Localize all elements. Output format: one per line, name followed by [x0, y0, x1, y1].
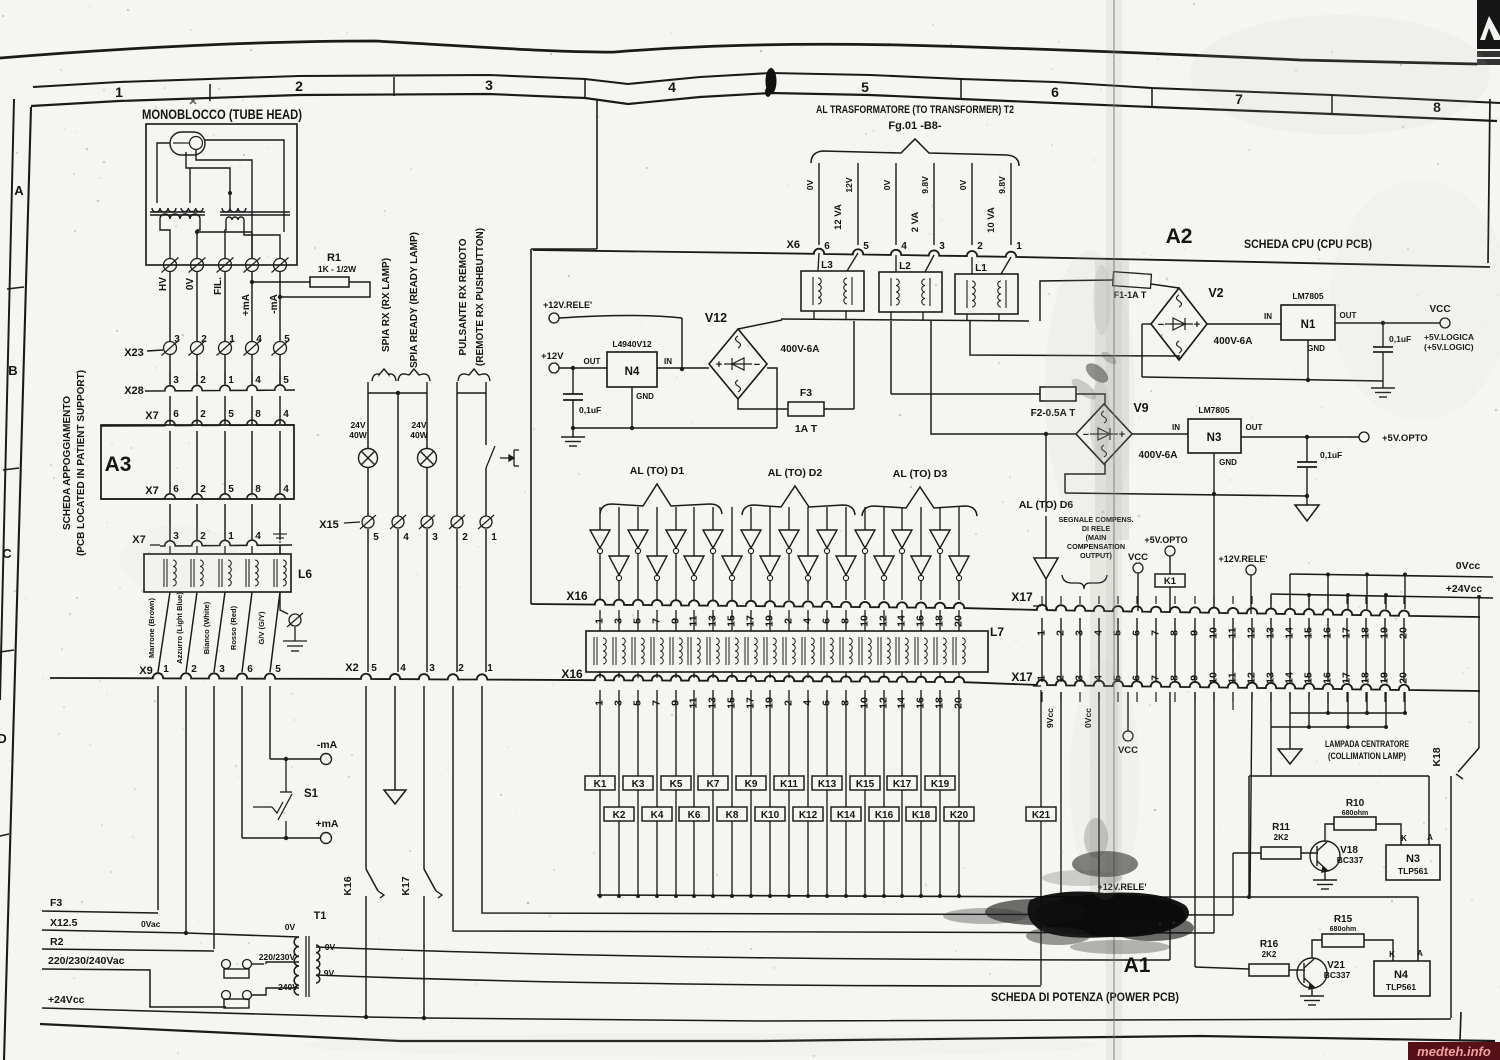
L7 winding [651, 637, 663, 665]
relay box K18 [906, 807, 936, 821]
wire driver to X16 lower [693, 581, 695, 600]
wire R15 to N4 K [1364, 940, 1393, 961]
wire X16 to L7 [845, 610, 847, 631]
relay box K15 [850, 776, 880, 790]
svg-text:3: 3 [173, 375, 179, 386]
svg-text:X16: X16 [561, 667, 583, 681]
inductor block L7 outline [586, 631, 988, 672]
svg-text:N4: N4 [625, 366, 640, 378]
svg-text:Marrone (Brown): Marrone (Brown) [147, 597, 156, 658]
wire relay to bus [637, 790, 639, 895]
driver circle upper [899, 548, 904, 553]
svg-text:1: 1 [491, 532, 497, 543]
transformer T-HV primary winding 1 [152, 208, 176, 212]
wire to R11 [1233, 852, 1261, 854]
svg-text:A3: A3 [105, 453, 132, 476]
L6 winding [219, 559, 231, 587]
junction N3 gnd rail [1212, 492, 1216, 496]
wire X17 pin 12 pass-through [1251, 618, 1253, 682]
regulator N1 LM7805 box [1281, 305, 1335, 340]
wire X23 to X28 [279, 355, 281, 384]
svg-text:K3: K3 [632, 779, 645, 790]
wire lamp1 top [367, 382, 369, 393]
svg-text:K: K [1401, 834, 1407, 843]
svg-text:4: 4 [255, 531, 261, 542]
wire relay to bus [618, 821, 620, 895]
svg-text:L4940V12: L4940V12 [612, 339, 651, 349]
wire relay to bus [675, 790, 677, 895]
junction collector [1403, 711, 1407, 715]
X17 upper stub [1136, 596, 1138, 604]
wire box edge vertical to frame [596, 99, 598, 249]
svg-text:9.8V: 9.8V [920, 176, 930, 194]
wire X17 pin 9 pass-through [1194, 618, 1196, 682]
svg-text:K16: K16 [875, 810, 894, 821]
svg-text:8: 8 [255, 409, 261, 420]
wire box top edge [531, 248, 597, 250]
wire X12.5 line [42, 930, 299, 937]
svg-text:X6: X6 [787, 239, 800, 251]
svg-text:4: 4 [400, 663, 406, 674]
svg-text:X17: X17 [1011, 670, 1033, 684]
wire L7 to X16 lower [920, 672, 922, 678]
wire 0Vcc to pin14 [1289, 574, 1291, 608]
driver triangle upper 11 [779, 530, 799, 548]
svg-text:+mA: +mA [241, 294, 252, 316]
cap plate [1297, 466, 1317, 468]
wire X17 pin 15 pass-through [1308, 618, 1310, 682]
tube head box A-outline [146, 124, 297, 265]
svg-text:3: 3 [939, 241, 945, 252]
wire pin to collector [1327, 692, 1329, 713]
wire X16 to L7 [618, 610, 620, 631]
wire tube to fil winding [205, 140, 284, 208]
resistor R1 body [310, 277, 349, 287]
junction +24Vcc K18 [1477, 595, 1481, 599]
wire R2 line [42, 949, 214, 951]
svg-text:FIL.: FIL. [213, 277, 224, 295]
driver circle upper [862, 548, 867, 553]
svg-text:R15: R15 [1334, 914, 1353, 925]
driver triangle lower 2 [609, 556, 629, 575]
wire transformer bottom [966, 314, 968, 320]
wire driver to X16 [675, 554, 677, 600]
optocoupler N3 box [1386, 845, 1440, 880]
wire to driver lower [845, 507, 847, 556]
L6 top stub [196, 546, 198, 554]
svg-text:X28: X28 [124, 385, 144, 397]
svg-text:2: 2 [200, 375, 206, 386]
svg-text:K18: K18 [1431, 747, 1443, 766]
wire driver to X16 lower [807, 581, 809, 600]
junction 0Vcc [1365, 573, 1369, 577]
svg-text:+5V.OPTO: +5V.OPTO [1382, 433, 1428, 444]
transistor V18 BC337 [1310, 841, 1340, 872]
L7 winding [594, 637, 606, 665]
svg-text:3: 3 [429, 663, 435, 674]
L6 top stub [279, 546, 281, 554]
driver triangle lower 16 [874, 556, 894, 575]
selector contact 2a [222, 991, 231, 1000]
wire L7 to X16 lower [939, 672, 941, 678]
wire F3 up to trafo line [853, 321, 855, 409]
wire L7 to X16 lower [656, 672, 658, 678]
svg-text:A: A [14, 183, 24, 198]
selector contact 2b [243, 991, 252, 1000]
wire X17 pin 6 pass-through [1136, 618, 1138, 682]
junction collector [1365, 711, 1369, 715]
relay box K17 [887, 776, 917, 790]
svg-text:2K2: 2K2 [1262, 950, 1277, 959]
wire pin to collector [1404, 692, 1406, 713]
svg-text:Fg.01 -B8-: Fg.01 -B8- [888, 120, 942, 132]
wire X16 to relay row2 [958, 690, 960, 807]
svg-text:0Vcc: 0Vcc [1456, 560, 1481, 572]
wire inside A3 [251, 431, 253, 493]
wire X9-5 down [269, 686, 271, 759]
wire X6-4 into L2 [895, 255, 897, 272]
wire to driver upper [901, 507, 903, 530]
driver triangle lower 18 [911, 556, 931, 575]
svg-text:K18: K18 [912, 810, 931, 821]
X17-11 stub [1232, 692, 1234, 710]
X17 upper stub [1060, 596, 1062, 604]
bus junction [863, 894, 867, 898]
wire X15 to X2 [456, 529, 458, 672]
svg-text:9.8V: 9.8V [997, 176, 1007, 194]
svg-text:K10: K10 [761, 810, 780, 821]
X28 pin stub [196, 371, 198, 385]
wire driver to X16 [826, 554, 828, 600]
wire L7 to X16 lower [807, 672, 809, 678]
X17 lower stub [1365, 692, 1367, 702]
wire driver to X16 lower [618, 581, 620, 600]
wire X16 to relay row1 [788, 690, 790, 776]
wire driver to X16 lower [845, 581, 847, 600]
wire VCC to X17-6 [1137, 573, 1139, 611]
svg-text:8: 8 [255, 484, 261, 495]
wire bus to N4 A [1417, 897, 1419, 961]
svg-text:0V: 0V [882, 179, 892, 190]
wire to driver lower [656, 507, 658, 556]
junction tube head [228, 191, 232, 195]
svg-text:K5: K5 [670, 779, 683, 790]
left frame line [4, 107, 31, 1060]
ruler tick [393, 77, 395, 96]
T-HV secondary winding [160, 214, 200, 219]
svg-text:MONOBLOCCO (TUBE HEAD): MONOBLOCCO (TUBE HEAD) [142, 107, 302, 122]
relay box K13 [812, 776, 842, 790]
L7 winding [953, 637, 965, 665]
wire X17-1 to K21 [1040, 690, 1042, 807]
driver circle lower [729, 575, 734, 580]
wire X16 to relay row2 [920, 690, 922, 807]
relay box K7 [698, 776, 728, 790]
wire X16 to relay row1 [637, 690, 639, 776]
svg-text:X15: X15 [319, 519, 339, 531]
wire X16 to relay row1 [750, 690, 752, 776]
down arrow (lamp common) [1278, 749, 1302, 764]
X17 lower stub [1174, 692, 1176, 702]
down arrow gnd opto [1295, 505, 1319, 521]
ruler tick [584, 80, 586, 99]
junction S1 bottom [284, 836, 288, 840]
wire X16 to L7 [864, 610, 866, 631]
junction cap 5V.OPTO [1305, 435, 1309, 439]
connector X28 row [145, 385, 295, 391]
wire to driver upper [864, 507, 866, 530]
svg-text:0Vac: 0Vac [141, 919, 161, 929]
svg-text:G/V (G/Y): G/V (G/Y) [257, 611, 266, 644]
svg-text:AL TRASFORMATORE (TO TRANSFORM: AL TRASFORMATORE (TO TRANSFORMER) T2 [816, 104, 1014, 116]
wire pin to collector [1289, 692, 1291, 713]
wire N1 out to VCC [1335, 322, 1440, 324]
svg-text:LM7805: LM7805 [1292, 291, 1323, 301]
svg-text:4: 4 [668, 79, 676, 95]
svg-text:R16: R16 [1260, 939, 1279, 950]
wire X17 pin 20 pass-through [1403, 618, 1405, 682]
svg-text:K9: K9 [745, 779, 758, 790]
wire driver to X16 [637, 554, 639, 600]
svg-text:K6: K6 [688, 810, 701, 821]
wire to driver lower [920, 507, 922, 556]
X17 upper stub [1384, 596, 1386, 604]
svg-text:SCHEDA DI POTENZA (POWER PCB): SCHEDA DI POTENZA (POWER PCB) [991, 992, 1179, 1004]
wire driver to X16 lower [656, 581, 658, 600]
wire L7 to X16 lower [599, 672, 601, 678]
wire to F1 [1040, 280, 1113, 321]
driver triangle upper 13 [817, 530, 837, 548]
wire X6-1 into L1 [1001, 257, 1011, 274]
svg-text:K4: K4 [651, 810, 664, 821]
wire X6-5 into L3 [847, 253, 858, 271]
wire to driver lower [769, 507, 771, 556]
selector link bar 1 [224, 969, 249, 978]
X15 terminal 5 [360, 515, 376, 529]
X23 terminal pin 5 [272, 341, 289, 356]
wire N3 gnd to X17-10 [1213, 494, 1215, 608]
wire to lamp2 [426, 393, 428, 448]
svg-text:K: K [1389, 950, 1395, 959]
svg-text:A: A [1417, 949, 1423, 958]
tube head terminal 3 [217, 258, 234, 273]
X17 upper stub [1174, 596, 1176, 604]
bus junction [749, 894, 753, 898]
wire K18 to +24 bottom line [1450, 776, 1452, 1018]
wire X2-4 down [394, 686, 396, 790]
svg-text:BC337: BC337 [1337, 855, 1364, 865]
X17 upper stub [1365, 596, 1367, 604]
transformer L3 [801, 271, 864, 311]
wire X17-12 to bus [1250, 692, 1252, 896]
driver triangle lower 6 [684, 556, 704, 575]
resistor R16 body [1249, 964, 1289, 976]
L7 winding [915, 637, 927, 665]
svg-text:V9: V9 [1133, 401, 1148, 415]
wire pin to collector 2 [1385, 692, 1387, 727]
wire X28 to X7 [169, 396, 171, 424]
bus junction [938, 894, 942, 898]
svg-text:D: D [0, 731, 7, 746]
wire R10 to collector [1325, 824, 1334, 841]
wire X6-6 into L3 [818, 253, 819, 271]
switch K16 blade [366, 869, 378, 891]
wire box left edge [530, 249, 532, 604]
X28 pin stub [224, 371, 226, 385]
junction +24 K17 [422, 1016, 426, 1020]
driver circle lower [843, 575, 848, 580]
ground V18 [1313, 880, 1337, 889]
svg-text:Rosso (Red): Rosso (Red) [229, 605, 238, 650]
svg-text:4: 4 [283, 409, 289, 420]
T-FIL core line 1 [220, 211, 290, 213]
wire L7 to X16 lower [901, 672, 903, 678]
wire X17 pin 4 pass-through [1098, 618, 1100, 682]
svg-text:A2: A2 [1166, 225, 1193, 248]
wire relay to bus [939, 790, 941, 895]
svg-text:K12: K12 [799, 810, 818, 821]
fuse F1 body [1113, 272, 1152, 289]
wire 9Vcc [1060, 692, 1062, 895]
relay box K12 [793, 807, 823, 821]
wire X16 to L7 [920, 610, 922, 631]
X17 lower stub [1327, 692, 1329, 702]
switch S1 [253, 759, 292, 838]
X17 lower stub [1232, 692, 1234, 702]
wire L7 to X16 lower [618, 672, 620, 678]
wire N1 gnd down [1307, 340, 1309, 380]
driver circle upper [673, 548, 678, 553]
svg-text:4: 4 [256, 334, 262, 345]
wire to D6 [1045, 434, 1047, 512]
wire X28 to X7 [196, 396, 198, 424]
wire G/V branch [280, 592, 288, 614]
driver circle lower [918, 575, 923, 580]
terminal VCC top [1133, 563, 1143, 573]
driver circle upper [824, 548, 829, 553]
wire R16 to base [1289, 969, 1305, 971]
wire driver to X16 [712, 554, 714, 600]
wire to K18 [1478, 597, 1480, 748]
svg-text:5: 5 [228, 409, 234, 420]
wire X16 to relay row2 [845, 690, 847, 807]
X17 upper stub [1079, 596, 1081, 604]
wire F3 out [824, 408, 854, 410]
brace pushbutton [458, 369, 490, 381]
ruler ink blob [766, 68, 777, 94]
switch K17 blade [424, 869, 436, 891]
wire driver to X16 [939, 554, 941, 600]
wire tube to HV winding [157, 143, 170, 203]
bus +12V.RELE [597, 895, 1418, 897]
svg-text:2 VA: 2 VA [910, 212, 921, 233]
wire V12 gnd rail [573, 427, 777, 429]
svg-text:1: 1 [228, 375, 234, 386]
bridge rectifier V9 [1076, 404, 1132, 464]
svg-text:LM7805: LM7805 [1198, 405, 1229, 415]
svg-text:−: − [754, 359, 760, 371]
wire X2-5 down [365, 686, 367, 869]
junction D6 net [1044, 432, 1048, 436]
svg-text:K21: K21 [1032, 810, 1051, 821]
junction collector 2 [1307, 725, 1311, 729]
X17 lower stub [1079, 692, 1081, 702]
wire X17 pin 1 pass-through [1041, 618, 1043, 682]
wire X16 to L7 [826, 610, 828, 631]
X17 lower stub [1194, 692, 1196, 702]
wire tap 220 to contact [266, 962, 299, 964]
driver circle upper [937, 548, 942, 553]
wire L6 to X9 [242, 592, 252, 672]
svg-text:12 VA: 12 VA [833, 204, 844, 230]
wire V9 bottom to rail [1065, 463, 1105, 493]
X17 lower stub [1251, 692, 1253, 702]
bus junction [900, 894, 904, 898]
svg-text:2: 2 [295, 78, 303, 94]
svg-text:K17: K17 [893, 779, 912, 790]
svg-text:+24Vcc: +24Vcc [48, 994, 85, 1006]
svg-text:2: 2 [462, 532, 468, 543]
svg-text:24V: 24V [350, 420, 365, 430]
wire X9-2 to X12.5 line [185, 686, 187, 933]
ruler tick [1331, 96, 1333, 115]
wire X15 to X2 [485, 529, 487, 672]
wire X28 to X7 [279, 396, 281, 424]
wire X15 to X2 [397, 529, 399, 672]
relay box K9 [736, 776, 766, 790]
L7 winding [707, 637, 719, 665]
junction +24Vcc [1346, 593, 1350, 597]
wire X17-8 down to line A [1169, 692, 1171, 960]
wire X23 to X28 [169, 355, 171, 384]
driver circle lower [616, 575, 621, 580]
junction cap N4 [571, 366, 575, 370]
wire inside A3 [169, 431, 171, 493]
wire X17 pin 17 pass-through [1346, 618, 1348, 682]
wire 0Vcc down [1098, 692, 1100, 895]
svg-text:A1: A1 [1124, 954, 1151, 977]
optocoupler N4 box [1374, 961, 1430, 996]
bus junction [844, 894, 848, 898]
wire R15 to V21 collector [1312, 940, 1322, 958]
wire to driver lower [618, 507, 620, 556]
wire V9 gnd rail [1065, 493, 1307, 496]
small mark [190, 98, 196, 104]
terminal +12V.RELE' top [1246, 565, 1256, 575]
svg-text:(PCB LOCATED IN PATIENT SUPPOR: (PCB LOCATED IN PATIENT SUPPORT) [76, 370, 87, 556]
wire X17 pin 3 pass-through [1079, 618, 1081, 682]
relay box K2 [604, 807, 634, 821]
junction +24 K16 [364, 1015, 368, 1019]
wire X6-3 into L2 [925, 255, 934, 272]
svg-text:1: 1 [163, 664, 169, 675]
wire to X15 pin4 [397, 393, 399, 516]
wire to +mA [242, 837, 320, 839]
svg-text:5: 5 [371, 663, 377, 674]
X17 upper stub [1346, 596, 1348, 604]
wire into L6 pin5 [279, 545, 281, 554]
wire 12V.RELE to X17-12 [1250, 575, 1252, 614]
driver circle upper [597, 548, 602, 553]
X23 terminal pin 4 [244, 341, 261, 356]
svg-text:24V: 24V [411, 420, 426, 430]
wire pushbutton left [456, 382, 458, 516]
wire L7 to X16 lower [750, 672, 752, 678]
wire to driver lower [693, 507, 695, 556]
T-HV core line 1 [150, 211, 205, 213]
wire down to N4 IN rail [681, 318, 683, 368]
wire F2 in [891, 393, 1040, 395]
